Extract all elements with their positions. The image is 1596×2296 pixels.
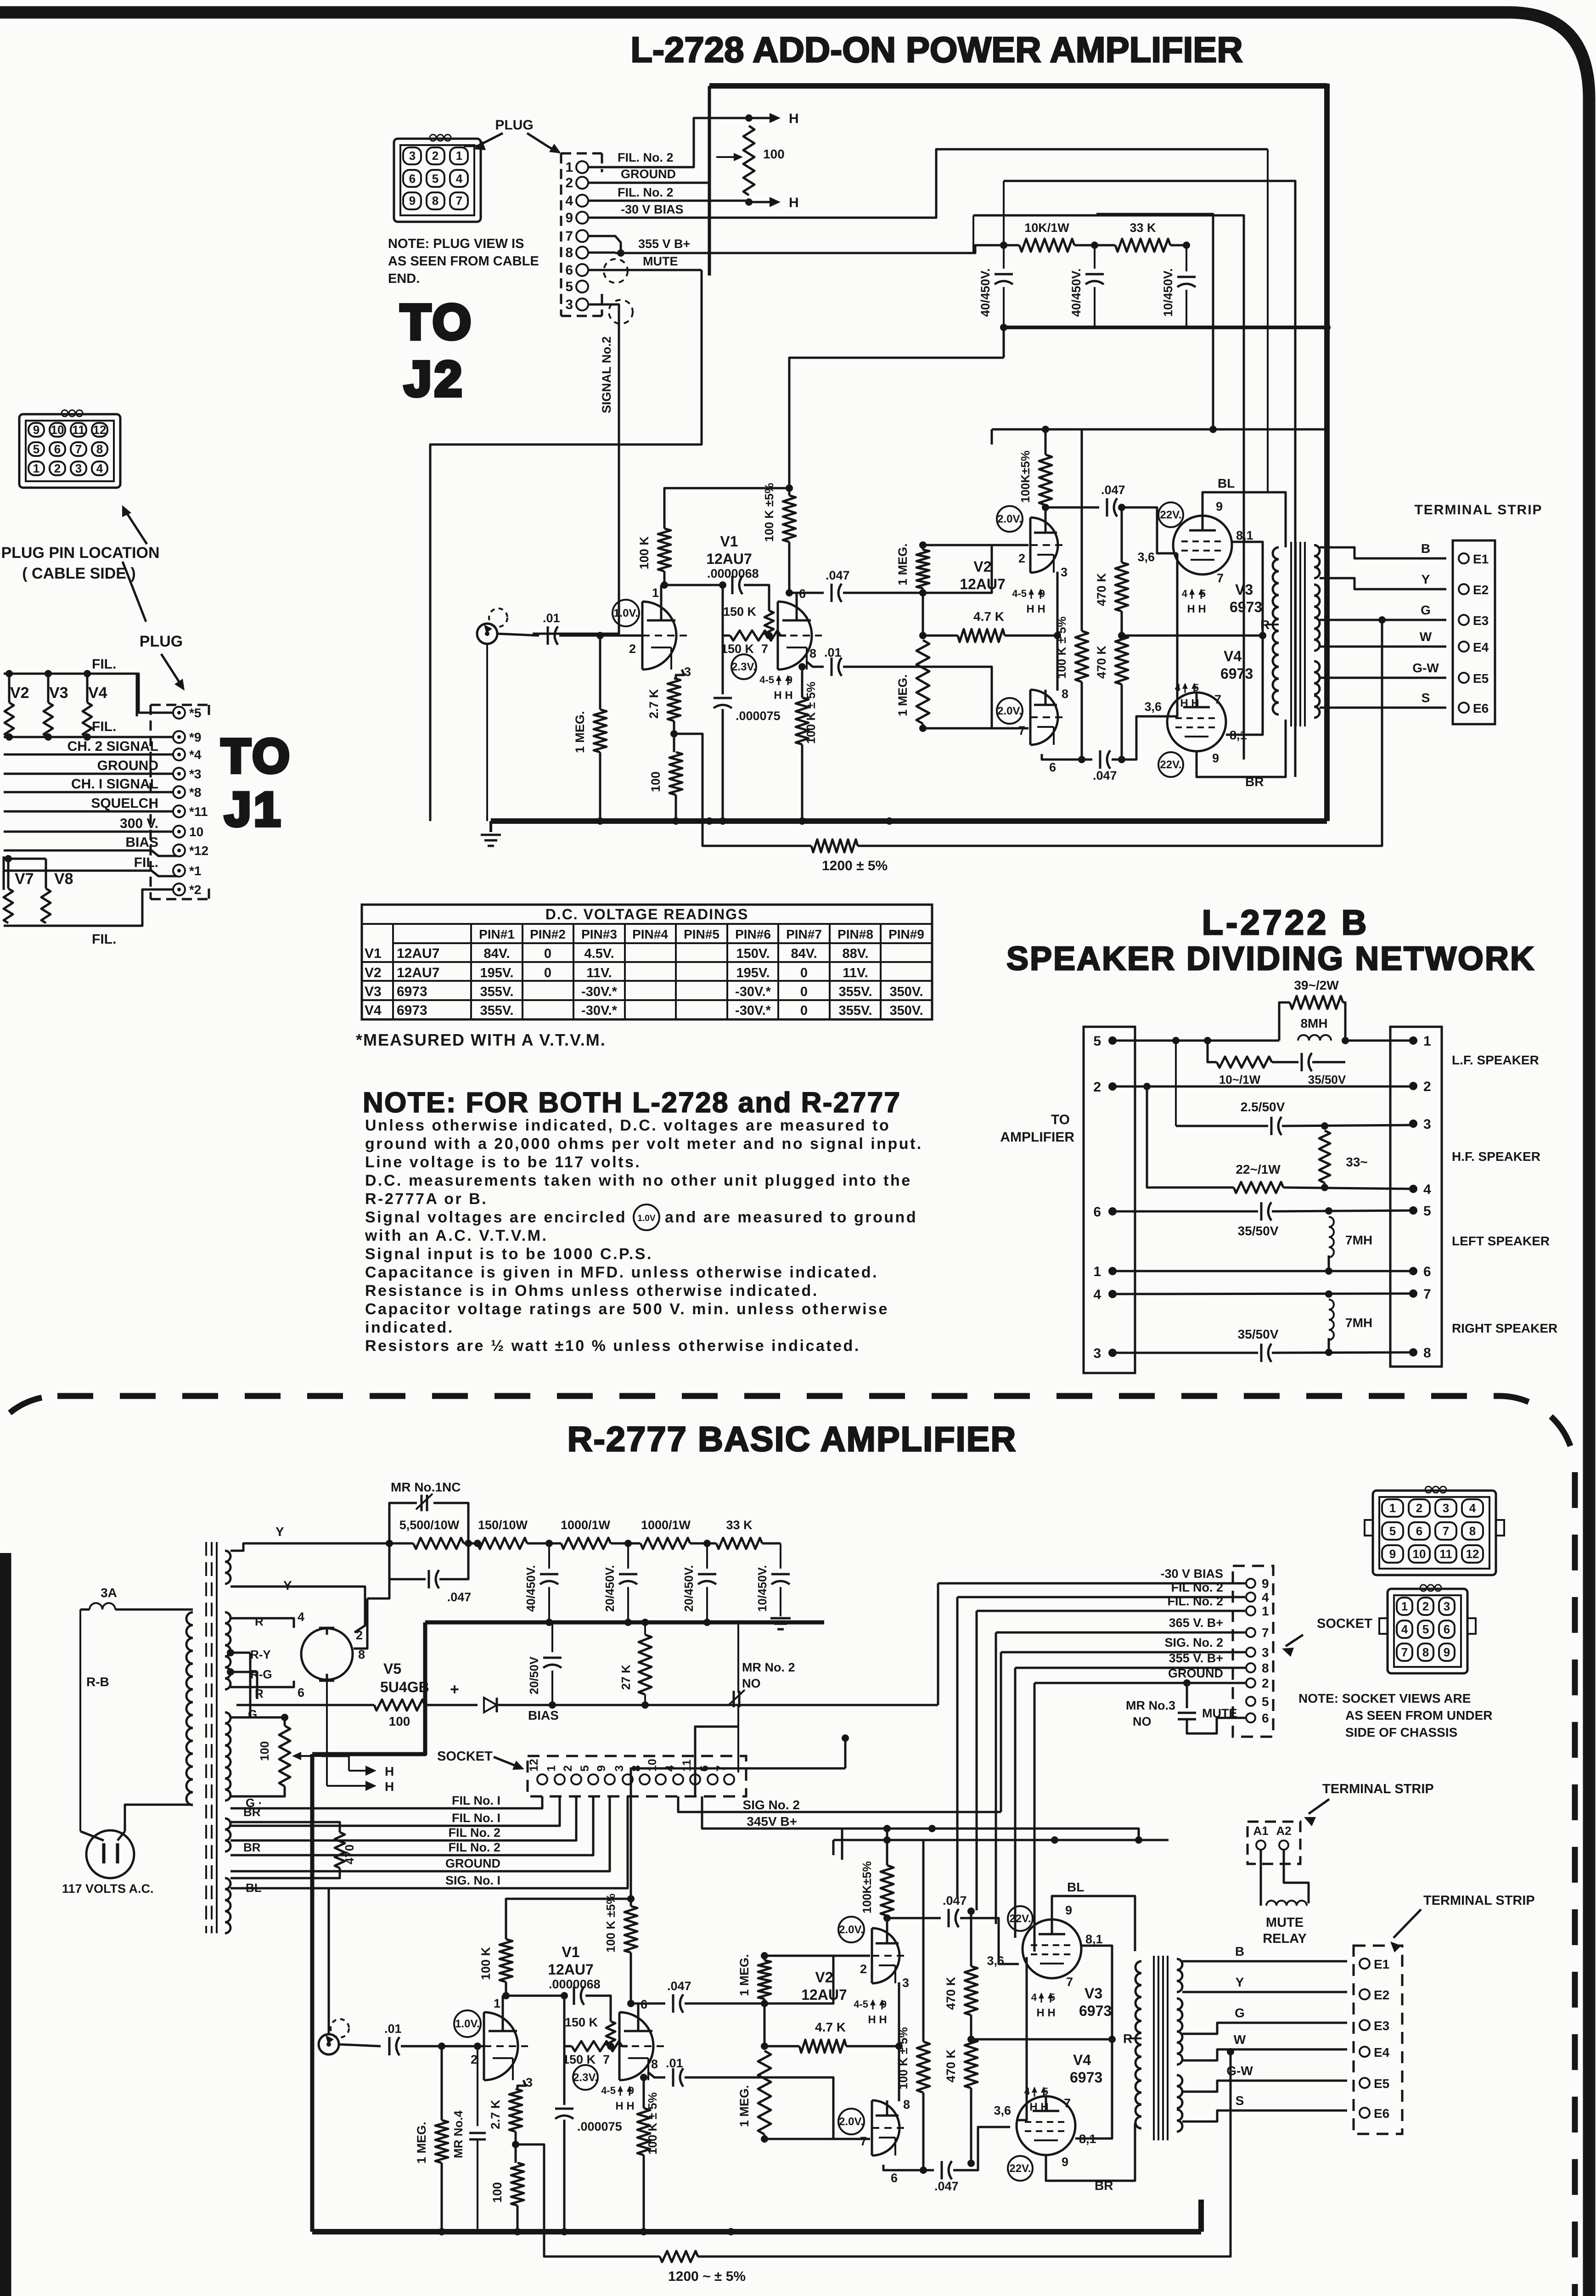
svg-text:7: 7 [75,442,82,456]
socket pin 10 [656,1774,666,1784]
wire B+ feed from PSU [631,1768,845,1899]
wire divider down [563,1996,566,2046]
resistor 1000/1W second [641,1538,690,1549]
capacitor .01 input [547,626,549,645]
svg-text:1 MEG.: 1 MEG. [896,674,910,716]
svg-text:indicated.: indicated. [365,1319,454,1336]
svg-text:7: 7 [565,229,573,244]
svg-text:V2: V2 [365,965,382,980]
svg-text:.047: .047 [447,1590,472,1604]
wire secondary tap W [1320,646,1446,648]
mute relay coil [1260,1850,1262,1903]
svg-text:.047: .047 [934,2179,959,2193]
svg-text:100 K ± 5%: 100 K ± 5% [1055,616,1068,679]
svg-text:6: 6 [1444,1622,1450,1636]
svg-text:4-5: 4-5 [601,2085,616,2096]
svg-text:H: H [789,195,799,210]
svg-text:100 K ± 5%: 100 K ± 5% [646,2092,659,2155]
svg-text:6973: 6973 [1230,599,1262,615]
power transformer core [205,1542,207,1933]
svg-text:8,1: 8,1 [1236,529,1253,542]
svg-text:1 MEG.: 1 MEG. [573,711,587,753]
bias feed wires bottom amp [841,1829,843,1860]
svg-text:Resistance is in Ohms unless o: Resistance is in Ohms unless otherwise i… [365,1282,819,1300]
wire .047 to V2a grid [685,1956,870,2003]
svg-text:1 MEG.: 1 MEG. [737,1954,751,1996]
svg-text:2.0V.: 2.0V. [839,2116,864,2128]
svg-text:E4: E4 [1374,2045,1390,2060]
wire row 8 [1113,1352,1258,1354]
svg-text:11V.: 11V. [586,966,612,980]
svg-text:100: 100 [258,1741,271,1761]
svg-text:20/50V: 20/50V [527,1656,541,1694]
svg-text:.01: .01 [666,2056,683,2070]
svg-text:SOCKET: SOCKET [437,1749,493,1764]
network output pin 1 [1409,1036,1417,1045]
svg-text:12AU7: 12AU7 [397,946,439,961]
svg-text:TERMINAL STRIP: TERMINAL STRIP [1423,1893,1535,1908]
rectifier tube V5 5U4GB [301,1628,353,1680]
pot wiper [294,1755,321,1757]
terminal E5 [1459,673,1469,683]
network output pin 7 [1409,1289,1417,1298]
svg-text:150V.: 150V. [736,946,770,961]
svg-text:BR: BR [243,1840,261,1854]
svg-text:L.F. SPEAKER: L.F. SPEAKER [1452,1053,1539,1067]
svg-text:NOTE: PLUG VIEW IS: NOTE: PLUG VIEW IS [388,236,524,251]
svg-text:355V.: 355V. [480,985,513,999]
svg-text:195V.: 195V. [736,966,770,980]
svg-text:1 MEG.: 1 MEG. [415,2122,428,2164]
svg-text:G: G [248,1707,257,1721]
svg-text:PIN#5: PIN#5 [684,927,719,941]
svg-text:6: 6 [1049,760,1056,774]
svg-text:Capacitance is given in MFD. u: Capacitance is given in MFD. unless othe… [365,1264,878,1281]
svg-text:9: 9 [1062,2155,1068,2169]
svg-text:4.7 K: 4.7 K [815,2020,846,2034]
svg-text:V3: V3 [1085,1985,1102,2002]
svg-text:MR No.4: MR No.4 [451,2110,465,2158]
svg-text:AS SEEN FROM UNDER: AS SEEN FROM UNDER [1345,1708,1492,1722]
terminal E4 [1459,642,1469,652]
svg-text:2.0V.: 2.0V. [997,705,1022,717]
leader arrow to plug view [124,509,147,544]
svg-text:R-2777A or B.: R-2777A or B. [365,1190,488,1208]
svg-text:Line voltage is to be 117 volt: Line voltage is to be 117 volts. [365,1154,641,1171]
signal voltage 22V upper [1008,1906,1033,1931]
socket pin 12 [537,1774,547,1784]
wire V4 screen [1075,2039,1112,2138]
wire BR plate V4 [1046,2123,1135,2181]
filament winding G-G with pot [225,1712,230,1801]
alignment circle (dashed) [604,259,628,283]
connector bar to amplifier [1084,1027,1135,1373]
filter cap 10/450V [780,1543,781,1569]
svg-text:2: 2 [1093,1080,1101,1095]
svg-text:8: 8 [651,2057,658,2071]
svg-text:Y: Y [275,1525,284,1539]
svg-text:BL: BL [1218,476,1235,490]
svg-text:V3: V3 [49,684,68,702]
svg-text:RELAY: RELAY [1263,1931,1307,1946]
svg-text:8: 8 [1423,1345,1431,1361]
svg-text:2: 2 [432,149,438,163]
svg-text:1.0V: 1.0V [637,1214,655,1223]
socket pin 3 [623,1774,633,1784]
svg-text:12AU7: 12AU7 [960,576,1006,592]
svg-text:H H: H H [1036,2007,1055,2019]
svg-text:SPEAKER DIVIDING NETWORK: SPEAKER DIVIDING NETWORK [1006,940,1535,977]
wire fil top to J1 pin 5 [137,674,179,713]
wire secondary tap Y [1320,578,1446,589]
svg-text:.01: .01 [824,646,842,659]
svg-text:6: 6 [54,442,61,456]
triode V1b [619,2012,653,2080]
resistor 1200 +-5% feedback [811,839,858,852]
wire signal input drop (bottom amp) [328,1888,330,2034]
svg-text:7: 7 [1401,1645,1408,1659]
svg-text:2.0V.: 2.0V. [997,513,1022,525]
svg-text:PIN#8: PIN#8 [837,927,873,941]
socket pin 8 [1246,1663,1255,1672]
svg-text:7MH: 7MH [1345,1233,1372,1247]
svg-text:E3: E3 [1374,2019,1389,2033]
svg-text:2: 2 [1416,1501,1422,1515]
svg-text:1: 1 [1423,1034,1431,1049]
svg-text:20/450V.: 20/450V. [603,1565,617,1612]
svg-text:CH. I SIGNAL: CH. I SIGNAL [71,777,158,792]
capacitor .047 lower out [1099,750,1101,769]
pot 100 across filament [230,1717,285,1726]
svg-text:1: 1 [33,461,39,475]
svg-text:V3: V3 [1235,581,1253,598]
network output pin 2 [1409,1082,1417,1090]
svg-text:R-2777 BASIC AMPLIFIER: R-2777 BASIC AMPLIFIER [568,1420,1017,1459]
svg-text:2: 2 [1423,1079,1431,1094]
svg-text:100 K: 100 K [479,1947,493,1980]
wire .047 to V2a grid [843,545,1028,593]
socket pin 7 [1246,1628,1255,1637]
svg-text:9: 9 [1065,1903,1072,1917]
connector J2 dashed outline [561,152,602,155]
wire V2b plate [883,2165,934,2170]
svg-text:4: 4 [1262,1590,1269,1604]
svg-text:.047: .047 [1093,769,1117,782]
capacitor .01 V1b cathode out [806,661,824,667]
resistor 1 MEG grid leak [599,636,601,709]
svg-text:PIN#9: PIN#9 [888,927,924,941]
svg-text:+: + [450,1681,459,1698]
resistor 33K dropping [716,1538,762,1549]
leader arrow to J1 connector [161,654,182,686]
wire input to coupling cap [497,634,539,636]
J1 pin 5 [173,707,185,719]
wire -30V BIAS pin9 [588,149,1268,218]
wire 100K to V1b plate [788,542,791,593]
svg-text:2: 2 [860,1962,867,1976]
socket 9-pin dashed (to add-on) [1233,1566,1273,1737]
svg-text:7: 7 [456,194,462,208]
svg-text:100 K ± 5%: 100 K ± 5% [804,681,818,744]
triode V1a [642,602,676,670]
svg-text:10: 10 [189,825,203,839]
svg-text:3,6: 3,6 [994,2104,1011,2117]
svg-text:V4: V4 [1073,2052,1091,2068]
connector bar to speakers [1390,1027,1442,1367]
wire 470K mid tap [1118,632,1125,639]
svg-text:2: 2 [562,1765,574,1772]
svg-text:2.7 K: 2.7 K [647,689,661,719]
socket pin 7 [724,1774,734,1784]
table D.C. VOLTAGE READINGS [362,905,932,1019]
svg-text:7: 7 [1064,2096,1071,2110]
leader to PLUG label [123,562,146,622]
svg-text:9: 9 [1216,500,1223,513]
svg-text:22V.: 22V. [1160,509,1181,521]
signal voltage 2.3V [573,2065,598,2090]
svg-text:H.F. SPEAKER: H.F. SPEAKER [1452,1149,1540,1164]
svg-text:100: 100 [763,147,785,161]
B+ thick bus [425,1621,824,1625]
svg-text:7: 7 [1443,1524,1449,1538]
svg-text:300 V.: 300 V. [120,816,158,831]
svg-text:355V.: 355V. [838,1003,872,1018]
terminal E1 [1360,1958,1370,1969]
svg-text:and are measured to ground: and are measured to ground [665,1209,917,1226]
svg-text:SQUELCH: SQUELCH [91,796,158,811]
resistor 100K +-5% interstage [630,1899,632,1906]
wire 100K to B+ node [506,1899,631,1939]
resistor 2.7K [509,2089,522,2132]
svg-text:8: 8 [432,194,438,208]
svg-text:8: 8 [1062,687,1068,701]
svg-text:1: 1 [652,586,659,600]
svg-text:H H: H H [615,2100,634,2112]
svg-text:FIL.: FIL. [92,932,116,947]
socket 12-pin dashed [528,1756,746,1796]
capacitor .047 bypass [389,1543,426,1579]
J1 pin 2 [173,884,185,895]
wire 100K to B+ node [664,488,789,529]
wire V3 screen to bus [1232,542,1263,636]
svg-text:PIN#6: PIN#6 [735,927,771,941]
J1 pin 4 [173,748,185,760]
svg-text:3: 3 [1262,1645,1269,1660]
dashed section border R-2777 [0,1396,1575,2296]
rectifier winding (R R-Y R-G R) [225,1612,230,1689]
socket pin 3 [1246,1648,1255,1657]
svg-text:88V.: 88V. [843,946,869,961]
svg-text:3: 3 [613,1765,626,1772]
svg-text:4: 4 [1031,1992,1037,2003]
input jack [319,2034,339,2054]
svg-text:6973: 6973 [1220,665,1253,682]
svg-text:4-5: 4-5 [759,674,774,686]
wire row 2 [1113,1086,1413,1088]
signal voltage 1.0V [454,2010,481,2037]
wire secondary tap S [1320,707,1446,709]
svg-text:5: 5 [1389,1524,1396,1538]
H arrows filament [285,1717,349,1718]
wire secondary tap G [1182,2023,1347,2034]
svg-text:AMPLIFIER: AMPLIFIER [1000,1130,1074,1145]
svg-text:MR No.3: MR No.3 [1126,1699,1175,1712]
svg-text:GROUND: GROUND [97,758,158,773]
svg-text:4: 4 [1423,1182,1431,1197]
svg-text:with an A.C. V.T.V.M.: with an A.C. V.T.V.M. [365,1227,548,1244]
svg-text:G-W: G-W [1412,661,1439,675]
svg-text:6: 6 [1416,1524,1422,1538]
terminal E6 [1459,703,1469,713]
svg-text:.000075: .000075 [577,2120,622,2133]
svg-text:PIN#1: PIN#1 [479,927,515,941]
svg-text:H: H [385,1779,394,1794]
output transformer T1 primary [1135,1961,1141,2128]
svg-text:V3: V3 [365,984,382,999]
svg-text:470 K: 470 K [1095,573,1108,606]
wire V3 V4 grids join [1169,553,1177,716]
svg-text:CH. 2 SIGNAL: CH. 2 SIGNAL [67,739,158,754]
ground bus bottom (thick) [491,818,1327,824]
triode V2b (inverted) [1030,690,1058,745]
svg-text:H H: H H [774,689,792,702]
svg-text:*9: *9 [189,730,201,744]
svg-text:40/450V.: 40/450V. [978,268,992,317]
wire V3 screen to bus [1081,1946,1112,2039]
svg-text:100K±5%: 100K±5% [1018,450,1032,503]
svg-text:*1: *1 [189,864,201,878]
signal voltage 1.0V [613,600,639,626]
triode V2a [872,1928,899,1983]
svg-text:8: 8 [1422,1645,1429,1659]
svg-text:470 K: 470 K [944,2049,958,2082]
svg-text:27 K: 27 K [619,1665,633,1690]
svg-text:.047: .047 [667,1979,691,1993]
svg-text:7: 7 [603,2053,610,2066]
svg-text:H: H [789,111,799,126]
resistor 100 bias [236,1704,374,1706]
svg-text:100 K ±5%: 100 K ±5% [762,483,776,542]
capacitor .000075 [555,2108,573,2110]
wire secondary tap G [1320,619,1446,621]
resistor 100K +-5% interstage [788,488,791,495]
svg-text:R: R [255,1615,264,1628]
J1 pin 12 [173,844,185,856]
resistor 4.7K [761,2043,768,2050]
ground symbol PSU [770,1617,791,1620]
svg-text:3: 3 [1093,1346,1101,1361]
svg-text:1: 1 [456,149,462,163]
svg-text:2: 2 [356,1628,363,1642]
resistor 100K+-5% V1b cathode [798,663,806,670]
socket pin 5 [588,1774,598,1784]
svg-text:FIL No. I: FIL No. I [452,1811,500,1825]
svg-text:*MEASURED WITH A V.T.V.M.: *MEASURED WITH A V.T.V.M. [356,1030,606,1049]
socket pin 11 [690,1774,700,1784]
svg-text:84V.: 84V. [484,946,510,961]
svg-text:E1: E1 [1473,552,1489,566]
svg-text:10: 10 [51,423,64,437]
svg-text:B: B [1421,541,1430,556]
svg-text:4: 4 [1401,1622,1408,1636]
svg-text:33~: 33~ [1346,1155,1368,1169]
svg-text:10/450V.: 10/450V. [755,1565,769,1612]
filament winding BL [225,1878,230,1933]
svg-text:TERMINAL STRIP: TERMINAL STRIP [1414,502,1542,518]
wire bias line [497,1704,938,1706]
B+ feed wire [992,428,1327,431]
svg-text:22~/1W: 22~/1W [1236,1162,1281,1176]
triode V2a [1030,518,1058,573]
wire V1a plate to 100K [502,1996,504,2012]
svg-text:3: 3 [409,149,416,163]
wire B+ feed from PSU [789,358,1004,488]
svg-text:BR: BR [1245,775,1264,789]
svg-text:33 K: 33 K [726,1518,753,1532]
svg-text:9: 9 [1444,1645,1450,1659]
svg-text:1: 1 [545,1765,558,1772]
wire FIL No.2 pin1 to heater pot [588,118,749,167]
svg-text:V8: V8 [54,870,73,888]
transformer core [1153,1956,1155,2140]
svg-text:117 VOLTS A.C.: 117 VOLTS A.C. [62,1882,154,1896]
wire GROUND pin2 to ground bus [588,182,709,184]
resistor 100K+-5% V2a plate [881,1865,894,1916]
svg-text:9: 9 [565,210,573,225]
resistor 22/1W [1147,1086,1234,1187]
svg-text:4: 4 [298,1610,304,1624]
svg-text:10/450V.: 10/450V. [1161,268,1175,317]
svg-text:100 K ±5%: 100 K ±5% [604,1894,618,1953]
svg-text:6: 6 [1093,1204,1101,1220]
wire secondary tap B [1320,547,1446,558]
svg-text:6973: 6973 [397,984,427,999]
svg-text:A1: A1 [1253,1824,1268,1838]
svg-text:-30 V BIAS: -30 V BIAS [1160,1567,1223,1581]
wire 355V B+ pin8 [588,252,615,254]
socket pin 2 [1246,1678,1255,1688]
resistor 10/1W + cap 35/50V branch [1208,1041,1217,1062]
capacitor .047 lower out [941,2161,943,2179]
wire V4 screen [1226,636,1263,735]
svg-text:5: 5 [432,172,438,186]
terminal E4 [1360,2047,1370,2057]
terminal strip E1-E6 box [1453,540,1495,724]
capacitor 2.5/50V [1270,1117,1273,1135]
svg-text:S: S [1422,691,1430,705]
svg-text:AS SEEN FROM CABLE: AS SEEN FROM CABLE [388,254,539,269]
svg-text:3A: 3A [101,1586,117,1600]
thick ground right vertical [1324,84,1330,821]
svg-text:9: 9 [595,1765,608,1772]
resistor 470K upper [1115,563,1128,611]
resistor 100K plate load V1a [658,529,671,571]
svg-text:2.5/50V: 2.5/50V [1241,1100,1285,1114]
resistor 1 MEG V2b grid [916,640,929,724]
filament winding BR-BR [225,1818,230,1851]
resistor 5,500/10W [413,1538,464,1549]
power transformer primary coil [186,1612,193,1805]
filter cap 20/450V second [703,1540,711,1547]
resistor 4.7K [919,632,927,639]
resistor 470K lower [1115,636,1128,684]
resistor 100 cathode [515,2132,517,2163]
svg-text:*3: *3 [189,767,201,781]
svg-text:5: 5 [1262,1694,1269,1709]
encircled 10V in note [634,1204,659,1230]
wire branch 2.5/50V [1175,1041,1177,1126]
svg-text:8MH: 8MH [1300,1016,1327,1030]
